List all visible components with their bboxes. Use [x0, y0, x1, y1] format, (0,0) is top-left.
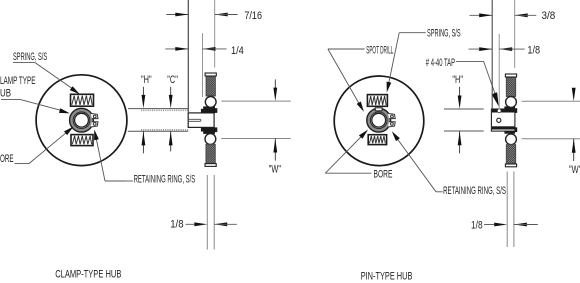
dimension H (pin) — [459, 87, 461, 96]
disc edge lines below assembly (pin figure) — [506, 172, 508, 248]
hub knurl band bottom — [141, 129, 188, 131]
mating face lines right of disc (pin figure) — [522, 100, 580, 102]
H extension line bottom (pin) — [444, 130, 484, 132]
disc circle, clamp figure front view — [36, 75, 127, 166]
mating face lines right of disc (left figure) — [221, 100, 290, 102]
H extension line top (pin) — [444, 108, 484, 110]
lower ball — [205, 134, 216, 145]
spring S3 upper, front view — [367, 95, 387, 107]
upper ball — [205, 97, 216, 108]
upper spring end cap (pin) — [505, 74, 516, 77]
leader wire: spot drill label to ring top — [328, 48, 365, 50]
spring S1 upper, front view — [71, 94, 94, 106]
leader wire: SPRING label to spring S1 — [13, 61, 35, 63]
upper ball (pin) — [506, 97, 517, 108]
spring S4 lower, front view — [368, 135, 386, 145]
leader wire: BORE label to bore (right) — [325, 172, 371, 174]
disc circle, pin figure front view — [334, 76, 424, 166]
svg-text:RETAINING RING, S/S: RETAINING RING, S/S — [134, 174, 196, 186]
extension line at block left face x=492.2 — [491, 0, 493, 109]
svg-text:1/4: 1/4 — [231, 45, 244, 57]
extension line at hub left face x=188.3 — [187, 0, 189, 113]
4-40 tap hole — [497, 118, 501, 122]
retaining ring right of disc (pin bottom) — [515, 127, 517, 132]
retaining ring right of disc (pin top) — [515, 108, 517, 113]
extension line at hub right face x=214.7 — [214, 0, 216, 68]
spring S2 lower, front view — [71, 135, 93, 146]
svg-text:# 4-40 TAP: # 4-40 TAP — [426, 57, 455, 69]
clamp hub body OD bottom line — [128, 130, 188, 132]
svg-text:1/8: 1/8 — [471, 219, 483, 231]
dimension 7/16 — [166, 14, 188, 16]
upper spring end cap — [205, 73, 216, 76]
svg-text:1/8: 1/8 — [170, 218, 183, 230]
svg-text:BORE: BORE — [374, 168, 393, 180]
leader wire: tap label to pin hub block — [456, 60, 484, 62]
clamp slit — [189, 119, 201, 121]
extension line at block right face x=514.7 — [514, 0, 516, 68]
retaining ring right of disc (top) — [215, 108, 217, 113]
block bottom cross-hatch band — [492, 126, 515, 129]
lower spring end cap — [205, 164, 216, 167]
leader wire: hub label to clamp ring — [1, 98, 20, 100]
step below block — [504, 131, 515, 134]
svg-text:"H": "H" — [141, 74, 152, 86]
svg-text:RETAINING RING, S/S: RETAINING RING, S/S — [443, 185, 506, 197]
lower ball (pin) — [506, 134, 517, 145]
extension line x=499.2 to pin — [498, 34, 500, 108]
block top cross-hatch band — [492, 109, 515, 112]
lower spring on disc (pin), side view — [506, 145, 515, 164]
leader wire: spring label to spring S3 — [399, 32, 426, 34]
retaining ring right of disc (bottom) — [215, 127, 217, 132]
dimension W (left) — [274, 79, 276, 88]
lower spring on disc, side view — [206, 144, 215, 163]
dimension W (right) — [573, 88, 575, 92]
leader wire: retaining ring label to ring — [105, 180, 125, 182]
svg-text:1/8: 1/8 — [527, 44, 540, 56]
svg-text:UB: UB — [0, 87, 11, 99]
spot-drilled pin, end view on block top — [497, 109, 501, 113]
svg-text:3/8: 3/8 — [542, 10, 556, 22]
cross-section block above collar — [201, 109, 215, 113]
lower spring end cap (pin) — [505, 164, 516, 167]
upper spring on disc, side view — [206, 76, 215, 96]
dimension 3/8 — [470, 14, 493, 16]
svg-text:7/16: 7/16 — [244, 10, 262, 22]
disc edge lines below assembly (left figure) — [206, 175, 208, 250]
extension line x=202.5 for 1/4 dim — [202, 33, 204, 97]
svg-text:LAMP TYPE: LAMP TYPE — [0, 75, 36, 87]
clamp collar rectangle, side view — [188, 113, 214, 128]
cross-section block below collar — [201, 127, 215, 131]
svg-text:CLAMP-TYPE HUB: CLAMP-TYPE HUB — [55, 268, 121, 280]
svg-text:"H": "H" — [452, 74, 463, 86]
svg-text:SPOT DRILL: SPOT DRILL — [366, 45, 393, 57]
leader wire: retaining ring label to ring (right) — [436, 191, 443, 193]
hub knurl band top — [141, 109, 188, 111]
svg-text:ORE: ORE — [0, 153, 14, 165]
svg-text:"W": "W" — [569, 164, 580, 176]
svg-text:SPRING, S/S: SPRING, S/S — [427, 28, 461, 40]
pin hub retaining ring, front view — [367, 108, 395, 132]
step above block — [504, 106, 515, 109]
clamp hub body OD top line — [128, 108, 188, 110]
svg-text:PIN-TYPE HUB: PIN-TYPE HUB — [361, 271, 413, 283]
svg-text:SPRING, S/S: SPRING, S/S — [13, 51, 47, 63]
svg-text:"C": "C" — [167, 74, 178, 86]
clamp hub retaining ring, front view — [70, 108, 98, 132]
dimension 1/8 (pin, top) — [469, 48, 493, 50]
svg-text:"W": "W" — [269, 164, 281, 176]
leader wire: BORE label to bore — [14, 163, 29, 165]
upper spring on disc (pin), side view — [506, 77, 515, 97]
pin hub block, side view — [491, 109, 515, 131]
dimension 1/4 — [165, 48, 188, 50]
